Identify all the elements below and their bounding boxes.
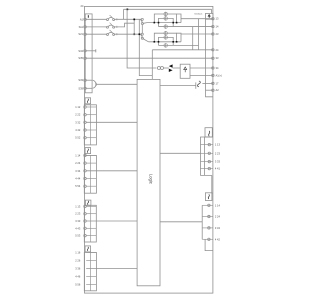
wire S39 to bracket <box>86 87 92 89</box>
svg-text:2 22: 2 22 <box>75 113 81 117</box>
svg-text:4 42: 4 42 <box>215 237 221 241</box>
svg-text:2 26: 2 26 <box>75 258 81 262</box>
svg-text:2 23: 2 23 <box>215 151 221 155</box>
svg-text:5 54: 5 54 <box>75 184 81 188</box>
svg-text:4 43: 4 43 <box>75 226 81 230</box>
terminal S21 left <box>84 33 86 35</box>
svg-text:1 13: 1 13 <box>215 143 221 147</box>
group1 inner loop <box>159 18 174 26</box>
group3 inner vert <box>90 205 92 242</box>
terminal S33 left <box>84 79 86 81</box>
group1 contact circle bottom <box>164 24 168 28</box>
group2 contact circle top <box>164 31 168 35</box>
relay contact K2 vertical <box>140 33 144 39</box>
g2 terminal 5 <box>84 185 86 187</box>
wire switch3 out <box>114 33 141 35</box>
terminal S11 left <box>84 26 86 28</box>
svg-text:5 56: 5 56 <box>75 282 81 286</box>
node dot 139.3/34.2 <box>139 33 141 35</box>
group1 symbol <box>87 99 88 103</box>
node dot top bus <box>127 9 129 11</box>
svg-text:S35: S35 <box>78 56 83 60</box>
wire S21 row <box>86 33 106 35</box>
input strip box <box>85 14 92 93</box>
interlock box <box>206 13 213 19</box>
terminal S35 left <box>84 57 86 59</box>
gB terminal 3 <box>208 227 210 229</box>
svg-text:4 46: 4 46 <box>75 275 81 279</box>
top bus drop to interlock <box>211 9 213 13</box>
g1 terminal 2 <box>84 114 86 116</box>
svg-text:23: 23 <box>216 32 219 36</box>
svg-text:A2: A2 <box>216 88 220 92</box>
group1 node dots <box>154 22 156 24</box>
wire group1 bottom to 14 <box>159 26 213 28</box>
g3 terminal 1 <box>84 205 86 207</box>
fuse symbol F1 <box>88 15 89 18</box>
wire diode to psu box <box>173 67 181 69</box>
left group 4 box <box>84 252 96 290</box>
diode pair <box>169 64 173 67</box>
group2 inner vert <box>90 155 92 193</box>
switch contact 1 <box>107 15 117 20</box>
cap plate <box>195 82 197 88</box>
svg-text:33: 33 <box>216 56 219 60</box>
gA terminal 3 <box>208 160 210 162</box>
svg-text:3 33: 3 33 <box>215 160 221 164</box>
right group B collector <box>201 205 203 239</box>
left group 3 symbol box <box>85 200 91 205</box>
group1 contact circle mid <box>164 16 168 20</box>
group1 contact circle top <box>164 12 168 16</box>
svg-text:24: 24 <box>216 48 219 52</box>
svg-text:4 41: 4 41 <box>215 167 221 171</box>
terminal A1 right <box>212 74 214 76</box>
contact group 2 mid line <box>149 41 182 43</box>
group2 node dots <box>154 41 156 43</box>
svg-text:1 13: 1 13 <box>75 204 81 208</box>
left group 1 symbol box <box>85 98 91 104</box>
contact group 1 mid line <box>147 22 181 24</box>
svg-text:3 36: 3 36 <box>75 267 81 271</box>
terminal 34 right <box>212 67 214 69</box>
wire S34 stub <box>86 50 96 52</box>
stub to A2 <box>206 89 213 91</box>
terminal A2 right <box>212 89 214 91</box>
link gA to gB <box>211 175 213 193</box>
node tick S34 <box>95 49 97 52</box>
wire bracket to logic <box>96 83 137 85</box>
group2 contact circle mid <box>164 35 168 39</box>
switch contact 2 <box>107 23 117 28</box>
svg-text:3 34: 3 34 <box>75 169 81 173</box>
g1 terminal 3 <box>84 121 86 123</box>
earth squiggle <box>197 81 200 87</box>
gA terminal 2 <box>208 152 210 154</box>
top bus <box>124 8 212 10</box>
g3 terminal 4 <box>84 227 86 229</box>
psu box <box>180 64 190 78</box>
drop to 24 wire <box>198 19 200 50</box>
svg-text:S33: S33 <box>78 78 83 82</box>
wire switch2 jog <box>114 23 134 27</box>
node dot 134.2/34.2 <box>133 33 135 35</box>
interlock bus down <box>206 19 213 97</box>
wire group2 bottom ext <box>159 44 199 46</box>
K2 out diag <box>143 39 148 42</box>
svg-text:3 33: 3 33 <box>75 219 81 223</box>
group1 inner vert <box>90 105 92 145</box>
svg-text:5 52: 5 52 <box>75 136 81 140</box>
gA terminal 4 <box>208 167 210 169</box>
switch contact 3 <box>107 30 117 35</box>
group4 symbol <box>87 247 88 251</box>
interlock symbol <box>208 15 210 18</box>
svg-text:S21: S21 <box>78 32 83 36</box>
bracket join <box>93 80 96 88</box>
left group 4 symbol box <box>85 246 91 252</box>
g2 terminal 3 <box>84 170 86 172</box>
fuse circles <box>157 67 160 70</box>
terminal S39 left <box>84 87 86 89</box>
terminal 14 right <box>212 25 214 27</box>
svg-text:13: 13 <box>216 17 219 21</box>
group3 symbol <box>88 201 89 205</box>
link K1-K2 <box>141 25 143 34</box>
wire group2 to 23 <box>177 33 213 42</box>
right group A box <box>201 137 213 175</box>
group2 symbol <box>87 149 88 153</box>
bus x152.3 to logic top <box>151 50 153 80</box>
left group 2 box <box>84 155 96 193</box>
group2 inner loop <box>159 37 174 45</box>
groupB symbol <box>208 194 209 199</box>
gB terminal 1 <box>208 204 210 206</box>
link bus x134.2 <box>133 19 135 34</box>
svg-text:17: 17 <box>216 81 219 85</box>
wire S33 to bracket <box>86 79 92 81</box>
left group 3 box <box>84 205 96 242</box>
groupA inner vert <box>204 137 206 175</box>
terminal 33 right <box>212 57 214 59</box>
gB bottom link to border <box>205 239 213 250</box>
g1 terminal 4 <box>84 129 86 131</box>
g3 terminal 2 <box>84 213 86 215</box>
svg-text:2 24: 2 24 <box>75 161 81 165</box>
group1 outer loop <box>154 14 176 23</box>
wire cap row <box>160 85 196 87</box>
wire A1 row <box>86 18 106 20</box>
g2 terminal 2 <box>84 162 86 164</box>
svg-text:A1: A1 <box>80 17 84 21</box>
groupA symbol <box>209 131 210 136</box>
g2 terminal 4 <box>84 177 86 179</box>
g1 terminal 5 <box>84 137 86 139</box>
node dot 134.2/19.3 <box>133 19 135 21</box>
logic box <box>137 79 160 285</box>
svg-text:14: 14 <box>216 25 219 29</box>
terminal 23 right <box>212 33 214 35</box>
svg-text:1 14: 1 14 <box>75 153 81 157</box>
svg-text:Interlock: Interlock <box>194 12 203 15</box>
g2 terminal 1 <box>84 154 86 156</box>
zener symbol <box>184 67 187 72</box>
wire logic to gA <box>160 152 201 154</box>
terminal 13 right <box>212 18 214 20</box>
wire squiggle to 17 <box>202 82 213 84</box>
svg-text:Logic: Logic <box>148 174 153 184</box>
svg-text:2 23: 2 23 <box>75 212 81 216</box>
g3 terminal 3 <box>84 220 86 222</box>
group2 contact circle bottom <box>164 43 168 47</box>
svg-text:1 12: 1 12 <box>75 105 81 109</box>
group2 outer loop <box>154 33 176 42</box>
svg-text:5 53: 5 53 <box>75 234 81 238</box>
riser to top bus <box>123 9 125 19</box>
svg-text:1 14: 1 14 <box>215 203 221 207</box>
svg-text:1 16: 1 16 <box>75 250 81 254</box>
wire group1 to 13 <box>177 14 213 23</box>
svg-text:A1(+): A1(+) <box>216 73 223 77</box>
terminal 17 right <box>212 82 214 84</box>
wire switch1 out <box>114 18 141 20</box>
right group A symbol box <box>205 128 212 137</box>
wire to diode <box>164 67 169 69</box>
K1 out diag <box>143 22 147 25</box>
svg-text:S11: S11 <box>79 25 84 29</box>
svg-text:24: 24 <box>81 4 84 8</box>
svg-text:4 42: 4 42 <box>75 128 81 132</box>
gB terminal 2 <box>208 215 210 217</box>
terminal S34 left <box>84 50 86 52</box>
left group 1 box <box>84 105 96 145</box>
feedback vert x192.7 <box>192 27 194 50</box>
svg-text:34: 34 <box>216 66 219 70</box>
border frame <box>85 6 213 293</box>
wire psu to A1 <box>190 74 213 76</box>
wire psu to 34 <box>190 67 213 69</box>
left group 2 symbol box <box>85 148 91 154</box>
bus x139.3 down to link <box>139 19 152 75</box>
svg-text:3 32: 3 32 <box>75 120 81 124</box>
wire S35 long <box>86 57 213 59</box>
g1 terminal 1 <box>84 106 86 108</box>
relay contact K1 vertical <box>140 18 144 24</box>
svg-text:S39: S39 <box>78 86 83 90</box>
wire 24 row <box>152 49 213 51</box>
terminal A1 left <box>84 18 86 20</box>
gA terminal 1 <box>208 143 210 145</box>
bus down x127.1 <box>127 9 156 68</box>
terminal 24 right <box>212 49 214 51</box>
svg-text:2 24: 2 24 <box>215 215 221 219</box>
right group B symbol box <box>205 193 212 201</box>
gB terminal 4 <box>208 238 210 240</box>
wire logic to gB <box>160 221 202 223</box>
g3 terminal 5 <box>84 234 86 236</box>
svg-text:S34: S34 <box>78 49 83 53</box>
svg-text:3 34: 3 34 <box>215 226 221 230</box>
svg-text:4 44: 4 44 <box>75 177 81 181</box>
group4 inner vert <box>90 252 92 290</box>
wire S11 row <box>86 26 106 28</box>
